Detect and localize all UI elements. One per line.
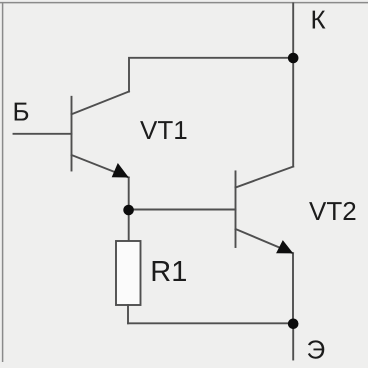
- wire VT1 collector to top rail: [129, 58, 293, 92]
- junction dot at К rail: [288, 53, 299, 64]
- svg-text:VT1: VT1: [140, 115, 188, 145]
- transistor VT1: [72, 92, 130, 178]
- transistor VT2 emitter arrow: [276, 240, 293, 253]
- svg-text:R1: R1: [150, 256, 187, 288]
- wire VT2 emitter down to Э node: [292, 253, 294, 323]
- resistor R1: [116, 241, 141, 305]
- wire bottom rail to Э node: [128, 322, 293, 324]
- transistor VT1 emitter arrow: [112, 163, 129, 178]
- wire VT1 emitter down through node to R1: [128, 178, 130, 242]
- junction dot at Э node: [288, 319, 299, 330]
- svg-text:Э: Э: [307, 334, 326, 364]
- wire base lead (node Б to VT1 base): [14, 133, 72, 135]
- junction dot at VT1 emitter / R1 / VT2 base: [123, 205, 134, 216]
- wire R1 bottom to bottom rail: [127, 305, 129, 323]
- svg-text:К: К: [311, 5, 326, 35]
- transistor VT2: [236, 167, 294, 254]
- wire VT1 emitter node to VT2 base: [129, 209, 236, 211]
- svg-text:Б: Б: [13, 96, 30, 126]
- wire Э lead (below junction): [292, 323, 294, 359]
- svg-text:VT2: VT2: [309, 196, 357, 226]
- wire К rail (top): [292, 4, 294, 167]
